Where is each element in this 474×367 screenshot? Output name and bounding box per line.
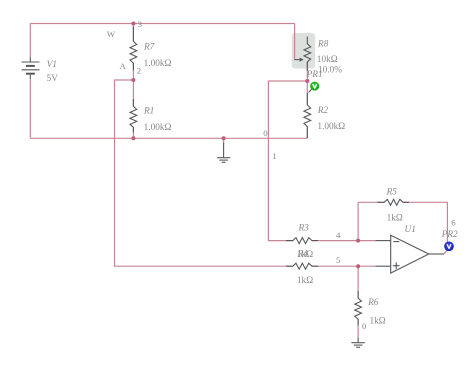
svg-text:1kΩ: 1kΩ: [387, 213, 403, 223]
svg-text:R3: R3: [298, 223, 310, 233]
svg-text:0: 0: [263, 128, 268, 138]
svg-text:10kΩ: 10kΩ: [317, 55, 338, 65]
svg-text:2: 2: [137, 65, 141, 75]
svg-text:1.00kΩ: 1.00kΩ: [144, 59, 172, 69]
svg-text:U1: U1: [405, 225, 416, 235]
svg-text:V1: V1: [47, 60, 57, 70]
svg-text:5: 5: [336, 255, 341, 265]
svg-text:0: 0: [362, 321, 367, 331]
svg-text:1: 1: [272, 151, 276, 161]
svg-text:1.00kΩ: 1.00kΩ: [317, 122, 345, 132]
svg-text:3: 3: [138, 19, 143, 29]
svg-text:R5: R5: [386, 187, 398, 197]
svg-text:1.00kΩ: 1.00kΩ: [144, 123, 172, 133]
svg-text:R2: R2: [317, 106, 329, 116]
svg-text:1kΩ: 1kΩ: [297, 276, 313, 286]
svg-text:R1: R1: [143, 107, 154, 117]
svg-text:R7: R7: [143, 43, 155, 53]
svg-text:R6: R6: [367, 298, 379, 308]
svg-text:PR1: PR1: [306, 70, 323, 80]
svg-text:A: A: [120, 61, 127, 71]
svg-text:5V: 5V: [47, 74, 59, 84]
svg-text:R4: R4: [297, 250, 309, 260]
svg-text:PR2: PR2: [441, 230, 458, 240]
svg-text:4: 4: [336, 230, 341, 240]
svg-text:6: 6: [451, 218, 456, 228]
svg-text:R8: R8: [317, 40, 329, 50]
svg-text:1kΩ: 1kΩ: [370, 317, 386, 327]
svg-text:W: W: [107, 29, 116, 39]
